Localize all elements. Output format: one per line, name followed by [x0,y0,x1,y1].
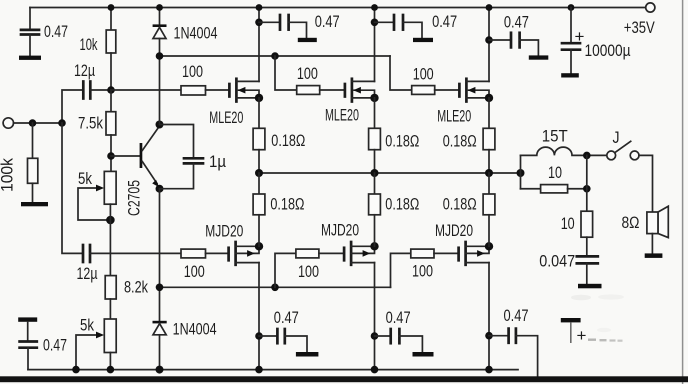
svg-text:MJD20: MJD20 [435,221,473,240]
node inductor right top [583,152,591,160]
resistor R10 0.18 source Q3 [369,98,420,173]
capacitor 0.47 lower A [255,308,307,352]
node rail/col1 [256,4,263,11]
ground lower B [413,352,434,357]
ground lower A [296,352,319,357]
node source Q6 [370,242,378,250]
capacitor 0.47 top-left [21,8,68,56]
node 7.5k/base [107,152,115,160]
capacitor 0.47 decoupling C [485,12,538,55]
svg-text:1N4004: 1N4004 [174,24,218,43]
transistor Q3 MLE20 [325,79,375,125]
node mid/col1 [255,169,263,177]
resistor 100k [0,123,38,202]
node input A [29,119,37,127]
wire drain column Q7 [488,263,490,370]
resistor R5 100 gate Q4 [412,64,460,94]
wire drain column Q2 [258,8,260,82]
speaker 8Ω [622,206,669,253]
terminal input [3,118,13,128]
wire output mid bus [259,172,521,174]
ground decoupling B [413,38,433,42]
svg-text:1N4004: 1N4004 [173,320,217,339]
ground 10000µ [561,73,579,77]
svg-text:0.18Ω: 0.18Ω [270,194,304,213]
node source Q5 [255,242,263,250]
svg-text:C2705: C2705 [125,180,144,216]
svg-text:0.47: 0.47 [43,336,67,355]
svg-text:0.18Ω: 0.18Ω [443,131,477,150]
wire input [14,122,63,124]
transistor Q4 MLE20 [437,79,489,126]
svg-text:12µ: 12µ [74,61,95,80]
resistor R8 100 gate Q7 [411,249,459,280]
node rail2 junctions [72,366,493,374]
svg-text:J: J [613,128,620,147]
svg-text:0.47: 0.47 [315,12,340,31]
wire negative bottom rail [28,369,518,371]
resistor R12 0.18 source Q5 [253,173,304,246]
ground decoupling A [298,38,317,42]
resistor 8.2k [105,276,148,319]
svg-text:8Ω: 8Ω [622,213,640,232]
svg-text:100k: 100k [0,158,17,192]
svg-text:MLE20: MLE20 [209,108,243,127]
capacitor 0.47 lower C [485,306,537,377]
svg-text:100: 100 [297,64,318,83]
node source Q7 [485,242,493,250]
transistor Q1 C2705 [125,126,160,216]
svg-text:MLE20: MLE20 [325,106,359,125]
ground top-left [19,56,41,60]
wire drain column Q3 [374,8,376,82]
wire riser gate Q3 [275,56,297,90]
svg-text:8.2k: 8.2k [124,277,148,296]
capacitor 0.47 decoupling A [255,12,340,38]
svg-text:7.5k: 7.5k [78,114,103,133]
svg-text:MLE20: MLE20 [437,107,471,126]
wire drain column Q6 [374,263,376,370]
resistor R9 0.18 source Q2 [253,98,305,173]
svg-text:0.47: 0.47 [44,22,68,41]
svg-text:0.18Ω: 0.18Ω [385,131,419,150]
ground decoupling C [529,55,549,59]
potentiometer 5k lower [76,316,116,370]
svg-text:0.47: 0.47 [504,306,529,325]
resistor 10k [80,8,116,91]
svg-text:0.18Ω: 0.18Ω [443,194,477,213]
resistor R3 100 gate Q2 [111,62,229,95]
node input B [58,119,66,127]
node emitter [156,185,164,193]
svg-text:15T: 15T [542,127,568,146]
svg-text:5k: 5k [80,316,94,335]
capacitor 0.47 bottom-left [18,317,67,369]
svg-text:100: 100 [412,262,433,281]
resistor R15 10 damping [521,163,587,193]
resistor R11 0.18 source Q4 [443,98,495,173]
svg-text:10k: 10k [80,35,98,54]
resistor R13 0.18 source Q6 [369,173,420,246]
wire relay to speaker [639,155,653,212]
svg-text:0.47: 0.47 [386,308,411,327]
resistor R16 10 zobel [561,155,593,256]
svg-text:10: 10 [548,163,562,182]
resistor R6 100 gate Q5 [90,249,229,281]
svg-text:MJD20: MJD20 [321,221,359,240]
svg-text:0.47: 0.47 [274,308,299,327]
node pot1 bottom [106,204,115,275]
transistor Q2 MLE20 [209,79,259,127]
watermark remnant [571,294,624,332]
node rail/10k [108,4,115,11]
border bottom bar [0,376,688,382]
resistor R14 0.18 source Q7 [443,173,495,246]
wire drain column Q5 [258,263,260,370]
capacitor 1µ [160,125,227,189]
svg-text:100: 100 [413,64,434,83]
resistor R7 100 gate Q6 [296,249,344,281]
diode D2 1N4004 [153,320,217,370]
wire emitter column [159,189,161,321]
svg-text:+: + [575,27,585,46]
node collector [156,121,164,129]
wire gate bus upper [160,55,391,57]
node source Q3 [370,94,378,102]
node bus1/riser2 [271,52,279,60]
resistor 7.5k [78,90,116,171]
node rail/col3 [486,4,493,11]
resistor R4 100 gate Q3 [297,64,345,94]
capacitor 0.47 lower B [371,308,423,352]
transistor Q7 MJD20 [435,221,489,265]
node rail/col2 [371,4,378,11]
node bus2/riser5 [271,284,279,292]
capacitor 10000µ negative rail faded [561,318,623,345]
svg-text:+: + [577,326,587,345]
potentiometer 5k upper [78,169,116,220]
svg-text:100: 100 [298,262,319,281]
ground zobel [578,284,602,289]
terminal +35V [624,3,656,37]
svg-text:100: 100 [184,262,205,281]
border right [682,0,684,384]
wire gate bus lower [160,286,391,288]
wire base [111,155,140,157]
node bus1/driver [156,52,164,60]
capacitor 0.047 zobel [539,252,598,284]
node mid/col2 [371,169,379,177]
capacitor 12µ input top [62,61,111,123]
diode D1 1N4004 [153,8,218,125]
capacitor 0.47 decoupling B [371,12,457,38]
node output [517,155,525,188]
svg-text:0.18Ω: 0.18Ω [385,194,419,213]
svg-text:5k: 5k [78,169,92,188]
node source Q2 [255,94,263,102]
svg-text:0.18Ω: 0.18Ω [271,131,305,150]
transistor Q6 MJD20 [321,221,375,265]
ground under 100k [21,202,48,206]
node source Q4 [485,94,493,102]
node 10k/7.5k/gate-line [107,86,115,94]
transistor Q5 MJD20 [205,222,259,265]
node rail/D1 [156,4,163,11]
node inductor right bottom [583,185,591,193]
svg-text:12µ: 12µ [77,264,98,283]
capacitor 10000µ positive rail [562,4,631,73]
svg-text:+35V: +35V [624,18,656,37]
svg-text:0.47: 0.47 [504,12,529,31]
inductor L1 15T [521,127,607,156]
svg-text:0.047: 0.047 [539,252,575,271]
svg-text:100: 100 [182,62,203,81]
wire +35V top rail [30,7,645,9]
capacitor 12µ lower [62,123,98,283]
relay J [607,128,639,160]
wire drain column Q4 [488,8,490,82]
svg-text:0.47: 0.47 [432,12,457,31]
ground speaker [645,253,663,258]
node mid/col3 [485,169,493,177]
wire riser gate Q7 [391,253,411,287]
wire riser gate Q4 [390,56,412,90]
node bus2/driver [156,284,164,292]
svg-text:1µ: 1µ [209,152,226,171]
svg-text:10: 10 [561,214,575,233]
svg-text:10000µ: 10000µ [585,41,631,60]
svg-text:MJD20: MJD20 [205,222,243,241]
wire riser gate Q6 [275,253,296,287]
